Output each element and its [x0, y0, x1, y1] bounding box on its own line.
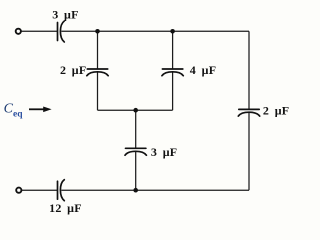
- svg-text:3 μF: 3 μF: [52, 8, 79, 22]
- svg-text:4 μF: 4 μF: [190, 63, 217, 77]
- svg-text:12 μF: 12 μF: [49, 201, 82, 215]
- svg-text:2 μF: 2 μF: [60, 63, 87, 77]
- svg-text:3 μF: 3 μF: [151, 145, 178, 159]
- svg-text:eq: eq: [13, 109, 23, 119]
- svg-text:2 μF: 2 μF: [263, 104, 290, 118]
